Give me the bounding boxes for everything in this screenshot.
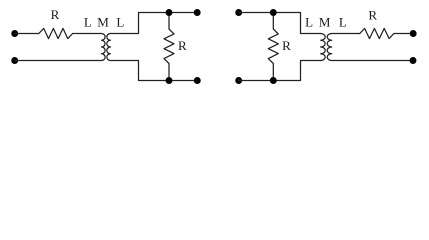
wire: top rail to transformer primary (right circuit) xyxy=(239,13,321,34)
node: bottom rail right end xyxy=(194,77,201,84)
node: output terminal top-right xyxy=(410,30,417,37)
svg-text:L: L xyxy=(305,15,313,30)
wire: series resistor to output terminal (right circuit) xyxy=(394,33,413,35)
svg-text:M: M xyxy=(319,15,331,30)
wire: secondary top to top rail xyxy=(110,13,197,34)
svg-text:R: R xyxy=(282,38,291,53)
node: junction bottom rail / shunt resistor xyxy=(166,77,173,84)
wire: secondary bottom to bottom rail xyxy=(110,61,197,81)
inductor: transformer primary winding (left circuit) xyxy=(102,34,106,61)
node: input terminal bottom-left xyxy=(11,57,18,64)
resistor R (series, left circuit) xyxy=(39,28,73,38)
inductor: transformer primary winding (right circuit) xyxy=(321,34,326,61)
node: top rail left end (right circuit) xyxy=(235,9,242,16)
node: bottom rail left end (right circuit) xyxy=(235,77,242,84)
wire: secondary bottom to output terminal (right circuit) xyxy=(332,60,413,62)
resistor R (shunt, right circuit) xyxy=(268,13,278,81)
wire: bottom wire from input to transformer primary xyxy=(15,60,102,62)
wire: secondary top to series resistor (right circuit) xyxy=(332,33,360,35)
wire: bottom rail to transformer primary (right circuit) xyxy=(239,61,321,81)
node: junction top rail / shunt resistor (right circuit) xyxy=(270,9,277,16)
resistor R (series, right circuit) xyxy=(360,28,394,38)
svg-text:M: M xyxy=(97,15,109,30)
node: output terminal bottom-right xyxy=(410,57,417,64)
node: top rail right end xyxy=(194,9,201,16)
inductor: transformer secondary winding (right circuit) xyxy=(327,34,332,61)
node: input terminal top-left xyxy=(11,30,18,37)
inductor: transformer secondary winding (left circuit) xyxy=(107,34,111,61)
resistor R (shunt, left circuit) xyxy=(164,13,174,81)
wire: top wire from resistor to transformer primary xyxy=(73,33,102,35)
svg-text:R: R xyxy=(51,7,60,22)
svg-text:L: L xyxy=(339,15,347,30)
svg-text:L: L xyxy=(116,15,124,30)
node: junction bottom rail / shunt resistor (right circuit) xyxy=(270,77,277,84)
svg-text:L: L xyxy=(84,15,92,30)
wire: top input lead xyxy=(15,33,39,35)
node: junction top rail / shunt resistor xyxy=(166,9,173,16)
svg-text:R: R xyxy=(368,7,377,22)
svg-text:R: R xyxy=(178,38,187,53)
